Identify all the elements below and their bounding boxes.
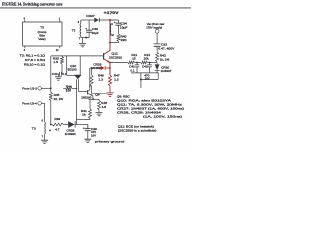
resistor R46	[91, 68, 93, 75]
node CR29 anode junction	[91, 67, 93, 69]
svg-text:1.3: 1.3	[114, 77, 119, 81]
ground C40b	[55, 77, 61, 80]
svg-text:4.7: 4.7	[55, 127, 60, 131]
wire return rail	[141, 79, 158, 81]
capacitor C41	[136, 63, 138, 65]
wire Q9 emitter	[92, 95, 94, 99]
winding T3 feedback	[44, 122, 47, 134]
resistor R39	[52, 123, 64, 126]
wire Q10 collector	[79, 56, 81, 75]
svg-text:(1A, 100V, 150ns): (1A, 100V, 150ns)	[143, 114, 182, 118]
node R40 junction	[109, 42, 111, 44]
resistor R44	[63, 88, 65, 90]
wire lower rail	[131, 72, 159, 74]
wire Q10 emitter lines	[75, 79, 77, 119]
svg-text:CR27: CR27	[86, 14, 95, 18]
svg-text:C43: C43	[142, 65, 148, 69]
wire left riser lower	[50, 101, 52, 125]
node winding dot	[49, 130, 51, 132]
ground emitter	[106, 93, 113, 96]
capacitor C39	[87, 125, 89, 129]
wire Vac drop	[156, 33, 158, 44]
svg-text:R44: R44	[66, 84, 72, 88]
capacitor C43	[149, 63, 151, 65]
wire C39 feed	[87, 125, 89, 129]
transistor Q11	[103, 53, 105, 60]
svg-text:1N4937: 1N4937	[161, 69, 172, 73]
svg-text:+: +	[83, 127, 85, 131]
node CR29 cathode junction	[109, 67, 111, 69]
svg-text:primary ground: primary ground	[95, 140, 125, 144]
svg-text:0.47, 400V: 0.47, 400V	[158, 46, 174, 50]
svg-text:0.1: 0.1	[130, 69, 135, 73]
svg-text:0.1: 0.1	[62, 72, 67, 76]
wire R41 bottom	[76, 118, 90, 120]
node Q9 emitter junction	[92, 98, 94, 100]
wire Q9 collector riser	[89, 68, 91, 90]
svg-text:1.8: 1.8	[102, 105, 107, 109]
wire Q10 base feed	[66, 56, 68, 76]
svg-text:15: 15	[132, 57, 136, 61]
wire Q9 base link	[78, 91, 87, 93]
svg-text:22, 1W: 22, 1W	[54, 97, 64, 101]
svg-text:170V supply): 170V supply)	[146, 25, 162, 29]
winding bottom lead	[80, 36, 82, 38]
node +170V junction	[109, 19, 111, 21]
svg-text:10µF: 10µF	[120, 26, 128, 30]
svg-text:E0103: E0103	[68, 67, 77, 71]
winding T3 primary-left top lead	[80, 20, 82, 24]
node junction dot	[85, 37, 87, 39]
wire U3-4 drop	[44, 103, 46, 122]
node C41 junction	[136, 62, 138, 64]
capacitor C32	[154, 44, 161, 46]
resistor R45	[49, 92, 52, 100]
capacitor C40	[88, 20, 90, 30]
wire base Q11	[51, 55, 103, 57]
resistor R35	[61, 57, 64, 65]
resistor R41	[89, 99, 91, 109]
ground T3 feedback	[44, 134, 46, 140]
svg-text:16V: 16V	[91, 134, 96, 138]
Q9 collector arrow	[89, 84, 91, 87]
svg-text:1.3: 1.3	[98, 77, 103, 81]
svg-text:1k, 1%: 1k, 1%	[160, 58, 170, 62]
winding T3 primary-left	[79, 24, 82, 37]
resistor R47	[109, 75, 112, 86]
node U3-3 junction	[50, 87, 52, 89]
title rule	[0, 7, 191, 9]
wire bottom rail	[51, 124, 52, 126]
svg-text:R7,8 ≈ 0.5Ω: R7,8 ≈ 0.5Ω	[25, 58, 46, 62]
node lower rail junction	[140, 79, 142, 81]
svg-text:+: +	[85, 27, 87, 31]
resistor R42	[156, 52, 159, 62]
svg-text:From U3-3: From U3-3	[22, 87, 37, 91]
capacitor C40b	[60, 72, 62, 76]
node rail junction	[50, 124, 52, 126]
wire emitter red	[109, 63, 111, 75]
diode CR27	[94, 18, 99, 23]
svg-text:FIGURE 14. Switching converter: FIGURE 14. Switching converter core	[2, 2, 63, 7]
ground R48	[98, 110, 100, 112]
node C43 junction	[149, 62, 151, 64]
node emitter bus junction	[109, 62, 111, 64]
transistor Q9	[87, 90, 89, 94]
svg-text:R9,10 ≈ 0.1Ω: R9,10 ≈ 0.1Ω	[24, 62, 46, 66]
svg-text:+: +	[114, 20, 116, 24]
svg-text:1N4934: 1N4934	[65, 132, 76, 136]
resistor R12	[141, 61, 148, 64]
diode CR29	[101, 66, 105, 70]
wire R46 bottom tie	[92, 93, 107, 95]
svg-text:C40: C40	[52, 72, 58, 76]
ground C39	[84, 139, 91, 142]
svg-text:(2SC2839 is a substitute): (2SC2839 is a substitute)	[118, 129, 156, 133]
wire R40 return	[118, 42, 120, 43]
node R44 junction	[76, 88, 78, 90]
diode CR28	[68, 121, 75, 127]
svg-text:10µF: 10µF	[92, 31, 99, 35]
svg-text:1.5: 1.5	[53, 60, 58, 64]
transformer T3 component-side-view box	[23, 22, 63, 46]
svg-text:220: 220	[121, 38, 127, 42]
resistor R40	[117, 34, 120, 42]
svg-text:2SC2810: 2SC2810	[109, 55, 122, 59]
svg-text:View): View)	[38, 37, 45, 41]
svg-text:T3: T3	[72, 29, 76, 33]
wire emitter bus	[110, 62, 128, 64]
wire collector red	[109, 20, 111, 51]
svg-text:Q9: Q9	[95, 92, 100, 96]
svg-text:+170V: +170V	[104, 11, 120, 15]
wire CR29 anode	[90, 67, 101, 69]
svg-text:R39: R39	[54, 117, 60, 121]
svg-text:T3: R0,1 ≈ 0.1Ω: T3: R0,1 ≈ 0.1Ω	[20, 53, 46, 57]
resistor R11	[128, 61, 135, 64]
svg-text:100: 100	[66, 89, 71, 93]
svg-text:From U3-4: From U3-4	[22, 102, 37, 106]
resistor R48	[98, 99, 100, 100]
diode CR30	[156, 63, 158, 65]
svg-text:T3: T3	[32, 126, 36, 130]
transistor Q10	[74, 74, 81, 76]
ground primary-left	[82, 38, 84, 44]
winding T3 secondary-right	[109, 24, 112, 36]
wire left riser	[50, 56, 52, 92]
wire CR27 to rail	[99, 19, 118, 21]
terminal Vac	[155, 29, 159, 33]
svg-text:10k: 10k	[144, 57, 150, 61]
capacitor C34	[118, 20, 120, 23]
